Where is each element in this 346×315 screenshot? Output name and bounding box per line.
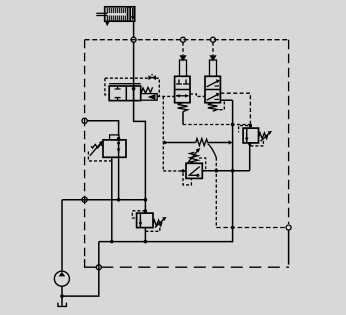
node N3 [211, 37, 216, 42]
pump suction line [61, 286, 63, 305]
pilot drop left (long dashed) [84, 40, 86, 262]
V3 bottom box flow arrows [176, 95, 189, 97]
pilot to N7 (dashed) [216, 227, 286, 229]
V4 body [205, 76, 220, 102]
main supply wire from N1 through V2 [133, 42, 135, 86]
wire N7 down [288, 230, 290, 265]
V4 solenoid stem [210, 60, 217, 76]
A1 down arrow in right cell [132, 8, 134, 18]
relief valve V6 body [243, 128, 258, 143]
tank bus [99, 100, 233, 241]
hand valve A1 body [105, 7, 135, 21]
V6 pilot loop right (dashed) [250, 140, 263, 146]
V3 spring [178, 103, 188, 112]
node N5 on P-bus [82, 197, 87, 202]
node N7 [286, 225, 291, 230]
spring sense line [168, 142, 196, 144]
junction dot x232 y170 [231, 169, 235, 173]
V1 pilot loop (dashed) [88, 152, 111, 161]
V7 internal line [139, 213, 141, 228]
V7 pilot loop top (dashed) [132, 211, 145, 218]
V3 solenoid stem [180, 60, 187, 76]
V3 top box blocked ports [176, 80, 182, 85]
junction dot pump T [60, 294, 64, 298]
V1 internal arrow [117, 149, 121, 154]
pilot from X1 to solenoid line (dashed) [156, 78, 160, 96]
V4 output wire [220, 99, 232, 101]
V4 bottom box flow arrow [207, 94, 218, 100]
node N2 [181, 37, 186, 42]
V6 internal arrow [245, 138, 249, 142]
V6 spring [259, 133, 268, 139]
V7 adjust arrow [155, 219, 164, 228]
pilot bus (dashed) [85, 39, 289, 41]
directional valve V2 top double line [109, 83, 141, 85]
wire N4 to relief valve V1 [87, 121, 118, 136]
V6 pilot loop left (dashed) [239, 126, 248, 133]
A1 bottom-left drain arrow [105, 21, 110, 26]
V7 pilot loop bottom (dashed) [145, 225, 159, 232]
pilot drop right (long dashed) [288, 40, 290, 224]
junction dot P bus right [144, 198, 148, 202]
V4 spring [208, 103, 218, 112]
V2 left box blocked port top [115, 86, 121, 89]
V3 drain pilot to right (dashed) [183, 124, 250, 126]
valve V7 body [137, 213, 153, 228]
V3 solenoid arrow [179, 55, 186, 61]
V5 output wire [202, 170, 249, 172]
middle valve V5 spring [190, 152, 198, 163]
V1 internal flow line [118, 140, 120, 157]
junction dot tank bus v7 [144, 240, 148, 244]
V6 internal line [246, 128, 248, 143]
V5 internal bottom bar [190, 174, 198, 176]
V6 adjust arrow [261, 133, 270, 142]
V2 spring [141, 87, 153, 93]
junction dot V5 left [181, 169, 184, 172]
V5 left port pilot (dashed) [163, 170, 186, 172]
node N1 [131, 37, 136, 42]
V7 in wire [144, 200, 146, 213]
A1 internal hatch stripes [107, 8, 125, 20]
drain bus (long dashed) [101, 266, 289, 268]
V5 internal flow [188, 167, 199, 176]
V7 internal arrow [139, 222, 143, 226]
V4 solenoid arrow [209, 55, 216, 61]
P bus [62, 199, 145, 201]
V6 in wire dot [248, 142, 251, 145]
V7 out wire [144, 228, 146, 242]
V1 out wire to P bus [118, 157, 120, 199]
sense curve down [208, 144, 217, 158]
pilot drop x216 (dashed) [215, 158, 217, 228]
V2 solenoid box [141, 94, 158, 101]
sense line right arrow [229, 140, 233, 144]
supply wire below V2 [134, 101, 146, 200]
V4 top box flow arrow [207, 81, 218, 87]
V2 left box blocked port bottom [115, 98, 121, 101]
middle valve V5 body [186, 163, 202, 178]
pilot enclosure top (dashed) [105, 77, 148, 79]
V2 dot top [132, 87, 136, 91]
V7 spring [153, 220, 162, 226]
V3 divider [175, 89, 190, 91]
valve V7 supply entry [144, 209, 147, 212]
pump P1 circle [54, 271, 69, 286]
V4 divider [205, 89, 220, 91]
V1 internal dot [117, 142, 120, 145]
tank return riser [62, 242, 99, 297]
junction dot V1 out [117, 198, 121, 202]
V6 output wire [249, 143, 251, 171]
junction dot x232 y227 [231, 226, 235, 230]
relief valve V1 top step [110, 135, 119, 140]
V2 solenoid arrow [148, 94, 155, 99]
pump P1 triangle [59, 272, 66, 277]
V1 drain wire to tank bus [111, 157, 113, 241]
A1 lever slot band [106, 13, 127, 15]
tank T1 [58, 303, 67, 307]
relief valve V1 body [103, 140, 126, 157]
reducing valve V3 pilot drop (dashed) [182, 42, 184, 55]
V3-V4 link pilot (dashed) [190, 94, 205, 96]
V3 body [175, 76, 190, 102]
node N6 drain [96, 265, 101, 270]
V2 divider [125, 86, 127, 101]
pump riser [61, 200, 63, 272]
pilot corner to drain node (dashed) [85, 259, 96, 267]
pilot enclosure left (dashed) [105, 78, 109, 95]
pilot drop x163 (dashed) [162, 96, 164, 170]
orifice X1 bowtie [148, 75, 152, 80]
junction dot V6 pilot [249, 124, 252, 127]
V4 right port pilot (dashed) [220, 93, 250, 128]
V4 drain pilot loop (dashed) [216, 102, 224, 110]
node N4 [82, 118, 87, 123]
junction dot tank bus left [110, 240, 113, 243]
V2 right box flow line [133, 86, 135, 101]
pilot solenoid to V3 (dashed) [157, 95, 174, 97]
junction dot V1 top [117, 137, 120, 140]
V1 spring [91, 144, 103, 148]
A1 lever double line [96, 12, 107, 14]
junction dot x232 dashed cross [231, 123, 235, 127]
wire A1 to node N1 [133, 21, 135, 37]
inline spring [196, 139, 208, 146]
A1 right section bars [127, 8, 129, 21]
V5 adjust arrow [188, 151, 198, 163]
junction dot x216 y170 [215, 169, 219, 173]
sense line right segment [208, 142, 229, 144]
reducing valve V4 pilot drop (dashed) [212, 42, 214, 55]
V5 spring pilot (dashed) [199, 158, 206, 171]
V1 adjust arrow [90, 143, 101, 156]
V3 drain down [182, 112, 184, 125]
spring sense line arrow left [164, 140, 169, 144]
V5 under loop (dashed) [183, 173, 191, 185]
directional valve V2 body [109, 86, 141, 101]
